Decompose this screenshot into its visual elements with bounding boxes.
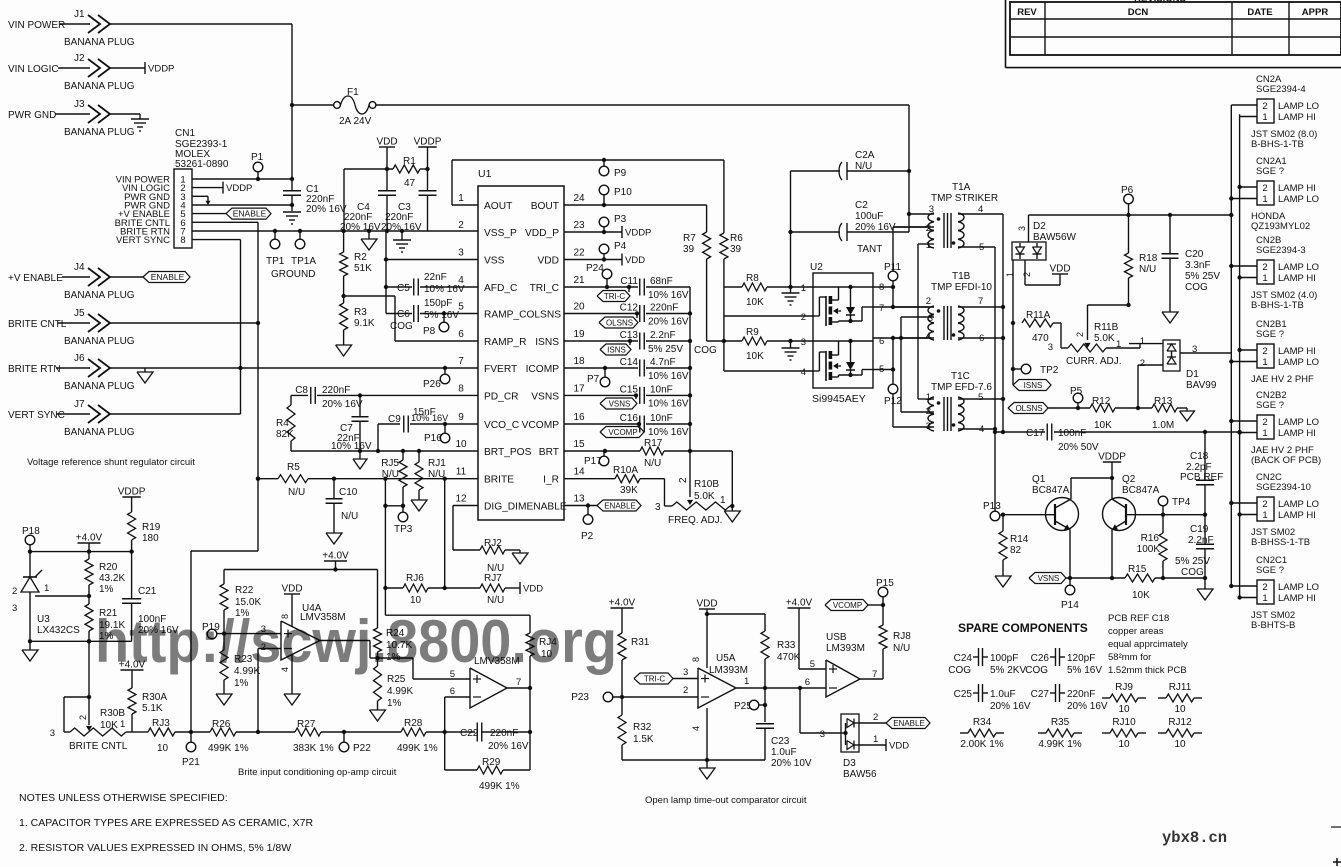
svg-text:VCO_C: VCO_C	[484, 420, 519, 431]
ground below C10	[326, 533, 342, 544]
svg-text:7: 7	[879, 303, 884, 314]
svg-text:R30A: R30A	[142, 692, 167, 703]
svg-text:R20: R20	[99, 562, 118, 573]
svg-text:T1C: T1C	[951, 371, 970, 382]
svg-text:1: 1	[1262, 273, 1267, 284]
svg-text:COG: COG	[1181, 567, 1204, 578]
svg-text:RJ11: RJ11	[1169, 682, 1192, 693]
svg-text:F1: F1	[347, 87, 359, 98]
svg-text:J7: J7	[74, 399, 85, 410]
capacitor C2A N/U	[791, 170, 841, 172]
ground at J6	[144, 368, 146, 372]
capacitor C2 100uF TANT	[790, 171, 792, 287]
svg-text:BRITE CNTL: BRITE CNTL	[8, 319, 67, 330]
capacitor C20 3.3nF	[1169, 215, 1171, 253]
svg-text:VDDP: VDDP	[148, 64, 174, 75]
svg-text:1: 1	[744, 676, 749, 687]
svg-text:Si9945AEY: Si9945AEY	[812, 393, 866, 405]
svg-text:C27: C27	[1031, 689, 1050, 700]
svg-text:VIN POWER: VIN POWER	[8, 20, 65, 31]
svg-text:13: 13	[573, 494, 585, 505]
svg-text:LAMP HI: LAMP HI	[1278, 112, 1316, 123]
svg-text:R25: R25	[387, 674, 406, 685]
svg-text:VDD: VDD	[537, 256, 559, 267]
svg-text:RJ10: RJ10	[1112, 717, 1136, 728]
power flag +4.0V at op-amp	[324, 560, 347, 562]
svg-text:SGE2394-10: SGE2394-10	[1256, 482, 1311, 493]
wire U4B pin6 to feedback	[445, 696, 470, 698]
net flag ENABLE at D3 pin2	[859, 722, 886, 724]
wire comparator ground rail	[622, 759, 765, 761]
svg-text:LAMP HI: LAMP HI	[1278, 183, 1316, 194]
resistor R3 9.1K	[343, 276, 345, 296]
svg-text:10: 10	[1118, 704, 1130, 715]
svg-text:2: 2	[1022, 272, 1032, 277]
svg-text:VDD: VDD	[1049, 264, 1070, 275]
svg-text:TMP STRIKER: TMP STRIKER	[931, 193, 998, 204]
wire pin11 node down to RJ6	[384, 479, 386, 616]
svg-text:BC847A: BC847A	[1122, 485, 1160, 496]
svg-text:PCB REF C18: PCB REF C18	[1108, 613, 1169, 624]
svg-text:VDD: VDD	[889, 741, 909, 752]
resistor R25 4.99K	[377, 658, 379, 666]
svg-text:43.2K: 43.2K	[99, 573, 125, 584]
net flag TRI-C on pin 21	[627, 285, 631, 289]
svg-text:FVERT: FVERT	[484, 364, 517, 375]
svg-text:18: 18	[573, 356, 585, 367]
svg-text:R10A: R10A	[613, 465, 638, 476]
svg-text:R16: R16	[1141, 533, 1160, 544]
net flag ISNS on pin 19	[628, 339, 632, 343]
svg-text:Open lamp time-out comparator: Open lamp time-out comparator circuit	[645, 795, 807, 806]
net flag VCOMP at P15	[825, 600, 868, 611]
svg-text:15.0K: 15.0K	[235, 597, 261, 608]
svg-text:equal apprcimately: equal apprcimately	[1108, 639, 1188, 650]
svg-text:220nF: 220nF	[322, 385, 350, 396]
svg-text:R14: R14	[1010, 534, 1029, 545]
svg-text:C24: C24	[954, 653, 973, 664]
svg-text:RAMP_COLSNS: RAMP_COLSNS	[484, 310, 561, 321]
resistors RJ5 RJ1 N/U	[402, 451, 404, 460]
test point TP1	[274, 231, 276, 239]
svg-text:R29: R29	[482, 757, 501, 768]
svg-text:499K 1%: 499K 1%	[397, 743, 438, 754]
wire R24 node to U4B pin5	[378, 657, 414, 659]
svg-text:VDDP: VDDP	[118, 487, 146, 498]
svg-text:D1: D1	[1186, 369, 1199, 380]
svg-text:RJ9: RJ9	[1115, 682, 1133, 693]
svg-text:P15: P15	[876, 578, 894, 589]
svg-text:LAMP LO: LAMP LO	[1278, 499, 1319, 510]
svg-text:20% 16V: 20% 16V	[306, 204, 347, 215]
svg-text:R3: R3	[354, 307, 367, 318]
svg-text:VDDP: VDDP	[625, 228, 651, 239]
test point P3 and VDDP flag on pin 23	[564, 231, 622, 233]
svg-text:LAMP HI: LAMP HI	[1278, 273, 1316, 284]
svg-text:+4.0V: +4.0V	[76, 533, 103, 544]
svg-text:VSS: VSS	[484, 256, 505, 267]
svg-text:7: 7	[458, 356, 464, 367]
svg-text:6: 6	[458, 329, 464, 340]
svg-text:U1: U1	[478, 168, 492, 180]
resistor R11A 470	[1022, 319, 1053, 327]
capacitor C13 2.2nF	[564, 340, 638, 342]
test point TP2	[1013, 368, 1021, 370]
svg-text:100K: 100K	[1137, 544, 1161, 555]
resistor RJ2 N/U on pin 12	[453, 505, 478, 507]
svg-text:20% 10V: 20% 10V	[771, 758, 812, 769]
svg-text:C6: C6	[397, 309, 410, 320]
potentiometer R11B 5.0K CURR ADJ	[1061, 347, 1068, 349]
svg-text:B-BHSS-1-TB: B-BHSS-1-TB	[1251, 537, 1310, 548]
resistor R32 1.5K	[618, 715, 626, 745]
svg-text:1: 1	[1116, 339, 1121, 350]
junction dots on ground rail	[341, 229, 345, 233]
svg-text:LAMP LO: LAMP LO	[1278, 194, 1319, 205]
svg-text:Voltage reference shunt regula: Voltage reference shunt regulator circui…	[27, 457, 195, 468]
svg-text:U3: U3	[37, 614, 50, 625]
svg-text:20% 16V: 20% 16V	[322, 399, 363, 410]
svg-text:P16: P16	[424, 433, 442, 444]
flag VDD after RJ7	[519, 582, 521, 594]
svg-text:+4.0V: +4.0V	[786, 598, 813, 609]
svg-text:Q1: Q1	[1032, 474, 1046, 485]
svg-text:1: 1	[720, 495, 726, 506]
wire CN1 pin3 to pin4	[192, 195, 208, 197]
svg-text:470: 470	[1032, 333, 1049, 344]
svg-text:PWR GND: PWR GND	[8, 110, 56, 121]
test point P13	[990, 511, 1000, 521]
svg-text:J2: J2	[74, 53, 85, 64]
svg-text:SGE ?: SGE ?	[1256, 166, 1284, 177]
svg-text:LX432CS: LX432CS	[37, 625, 80, 636]
capacitor C16 10nF	[564, 423, 638, 425]
svg-text:120pF: 120pF	[1067, 653, 1095, 664]
svg-text:LM393M: LM393M	[709, 665, 748, 676]
svg-text:20: 20	[573, 302, 585, 313]
svg-text:C21: C21	[138, 586, 157, 597]
resistor R26 499K	[210, 728, 236, 736]
svg-text:220nF: 220nF	[650, 303, 678, 314]
svg-text:TMP EFDI-10: TMP EFDI-10	[931, 282, 992, 293]
svg-text:SGE ?: SGE ?	[1256, 565, 1284, 576]
svg-text:NOTES UNLESS OTHERWISE SPECIFI: NOTES UNLESS OTHERWISE SPECIFIED:	[19, 792, 228, 804]
svg-text:3: 3	[12, 603, 17, 614]
svg-text:1. CAPACITOR TYPES ARE EXPRESS: 1. CAPACITOR TYPES ARE EXPRESSED AS CERA…	[19, 817, 314, 829]
svg-text:82: 82	[1010, 545, 1022, 556]
svg-text:J4: J4	[74, 262, 85, 273]
svg-text:ENABLE: ENABLE	[233, 209, 267, 219]
net flag ISNS	[1013, 380, 1051, 391]
capacitor C10 N/U	[333, 479, 335, 499]
svg-text:R7: R7	[683, 233, 696, 244]
svg-text:LAMP HI: LAMP HI	[1278, 346, 1316, 357]
svg-text:2: 2	[926, 296, 931, 307]
svg-text:P22: P22	[353, 743, 371, 754]
svg-text:C16: C16	[620, 413, 639, 424]
power flag VDD above U4A	[284, 593, 300, 595]
svg-text:6: 6	[450, 686, 455, 697]
svg-text:AFD_C: AFD_C	[484, 283, 517, 294]
svg-text:10nF: 10nF	[650, 413, 673, 424]
svg-text:BANANA PLUG: BANANA PLUG	[64, 427, 135, 438]
wire P6 rail	[1029, 214, 1232, 216]
resistor R4 82K	[290, 395, 292, 405]
svg-text:C2: C2	[855, 200, 868, 211]
resistor R16 100K	[1161, 513, 1165, 517]
svg-text:20% 16V: 20% 16V	[488, 741, 529, 752]
resistor R15 10K	[1125, 574, 1155, 582]
svg-text:100pF: 100pF	[990, 653, 1018, 664]
svg-text:R11B: R11B	[1094, 322, 1119, 333]
resistor R5 N/U	[256, 477, 260, 481]
svg-text:220nF: 220nF	[1067, 689, 1095, 700]
svg-text:3: 3	[683, 667, 688, 678]
power flag VDDP at Q1 Q2	[1103, 461, 1121, 463]
svg-text:P24: P24	[586, 263, 604, 274]
power flag +4.0V at reference	[78, 542, 101, 544]
svg-text:D3: D3	[843, 758, 856, 769]
svg-text:6: 6	[805, 677, 810, 688]
svg-text:100nF: 100nF	[1058, 428, 1086, 439]
svg-text:VSNS: VSNS	[1038, 574, 1060, 583]
ground after R13	[1186, 408, 1188, 411]
svg-text:JAE HV 2 PHF: JAE HV 2 PHF	[1251, 374, 1314, 385]
wire VSS pin3 row	[386, 259, 478, 261]
capacitor C17 100nF	[995, 431, 1045, 433]
svg-text:VDD: VDD	[281, 584, 302, 595]
test point P8	[442, 311, 446, 315]
svg-text:VDDP: VDDP	[1098, 452, 1126, 463]
test point P21	[189, 730, 193, 734]
net flag VCOMP on pin 16	[637, 422, 641, 426]
svg-text:C17: C17	[1026, 428, 1045, 439]
svg-text:12: 12	[455, 494, 467, 505]
wire U2 pin7 to T1B	[873, 306, 928, 308]
corner mark	[1333, 861, 1341, 863]
net flag VSNS on pin 17	[634, 393, 638, 397]
svg-text:R32: R32	[633, 722, 652, 733]
ground below C1	[283, 211, 301, 213]
wire U2 pin4 from column	[724, 370, 813, 372]
test point P15	[882, 597, 884, 605]
svg-text:VDD: VDD	[696, 599, 717, 610]
svg-text:D2: D2	[1033, 221, 1046, 232]
wire bottom rail pin10	[291, 450, 478, 452]
svg-text:N/U: N/U	[1139, 264, 1156, 275]
svg-text:BRITE RTN: BRITE RTN	[8, 364, 61, 375]
ground below C19	[1197, 589, 1213, 600]
svg-text:5.0K: 5.0K	[694, 491, 715, 502]
test point P5	[1048, 407, 1090, 409]
svg-text:68nF: 68nF	[650, 276, 673, 287]
svg-text:R19: R19	[142, 522, 161, 533]
svg-text:VSNS: VSNS	[609, 400, 631, 409]
svg-text:I_R: I_R	[543, 475, 559, 486]
resistor R8 10K	[724, 286, 742, 288]
svg-text:5: 5	[978, 392, 983, 403]
svg-text:2: 2	[873, 712, 878, 723]
svg-text:VDDP: VDDP	[226, 183, 252, 194]
svg-text:P17: P17	[584, 456, 602, 467]
svg-text:8: 8	[691, 657, 701, 662]
svg-text:20% 16V: 20% 16V	[340, 222, 381, 233]
net flag OLSNS	[1008, 403, 1048, 414]
resistor R28 499K	[401, 728, 426, 736]
lamp bus B	[1239, 114, 1241, 597]
svg-text:R28: R28	[404, 718, 423, 729]
svg-text:82K: 82K	[276, 429, 294, 440]
power flag +4.0V at U5B	[788, 607, 811, 609]
wire CN1 pin1 to VIN POWER	[192, 178, 292, 180]
wire T1C pin3 column	[892, 394, 894, 427]
wire brite row right	[426, 731, 475, 733]
svg-text:LAMP LO: LAMP LO	[1278, 357, 1319, 368]
svg-text:100uF: 100uF	[855, 211, 883, 222]
svg-text:BAW56W: BAW56W	[1033, 232, 1077, 243]
svg-text:22nF: 22nF	[424, 272, 447, 283]
svg-text:P2: P2	[581, 531, 594, 542]
svg-text:470K: 470K	[777, 652, 801, 663]
svg-text:1: 1	[801, 283, 806, 294]
svg-text:R27: R27	[297, 719, 316, 730]
svg-text:VDD: VDD	[523, 584, 543, 595]
svg-text:RJ1: RJ1	[428, 458, 446, 469]
ground below R10B	[731, 506, 733, 511]
capacitor C6 150pF	[386, 313, 412, 315]
capacitor C5 22nF	[386, 286, 412, 288]
svg-text:C19: C19	[1190, 524, 1209, 535]
net flag ENABLE at J4	[143, 272, 190, 283]
wire U5A output row	[736, 687, 826, 689]
svg-text:BAW56: BAW56	[843, 769, 877, 780]
svg-text:P14: P14	[1061, 600, 1079, 611]
resistor R10A 39K on I_R	[564, 478, 615, 480]
svg-text:R10B: R10B	[694, 479, 719, 490]
svg-text:C14: C14	[620, 357, 639, 368]
svg-text:2: 2	[678, 477, 689, 483]
svg-text:P23: P23	[571, 692, 589, 703]
svg-text:11: 11	[456, 467, 467, 478]
resistor R6 39	[720, 233, 728, 259]
svg-text:2: 2	[1262, 582, 1267, 593]
svg-text:USB: USB	[826, 632, 847, 643]
svg-text:2: 2	[801, 312, 806, 323]
svg-text:J6: J6	[74, 353, 85, 364]
svg-text:47: 47	[404, 178, 416, 189]
svg-text:58²mm for: 58²mm for	[1108, 652, 1151, 663]
wire U2 pin6 row	[873, 337, 928, 339]
svg-text:TANT: TANT	[857, 244, 882, 255]
caps common bus to wiper	[689, 287, 691, 451]
svg-text:P8: P8	[423, 326, 436, 337]
svg-text:2: 2	[1075, 332, 1085, 337]
svg-text:1: 1	[1262, 194, 1267, 205]
svg-text:BOUT: BOUT	[531, 201, 559, 212]
svg-text:3: 3	[50, 728, 55, 739]
svg-text:R2: R2	[354, 252, 367, 263]
svg-text:R18: R18	[1139, 253, 1158, 264]
svg-text:1: 1	[1262, 428, 1267, 439]
svg-text:C20: C20	[1185, 249, 1204, 260]
wire VIN POWER to F1 and CN1	[291, 24, 293, 179]
svg-text:BANANA PLUG: BANANA PLUG	[64, 81, 135, 92]
svg-text:2: 2	[458, 220, 464, 231]
svg-text:N/U: N/U	[382, 469, 399, 480]
svg-text:P4: P4	[614, 241, 627, 252]
svg-text:20% 16V: 20% 16V	[1067, 701, 1108, 712]
svg-text:N/U: N/U	[487, 595, 504, 606]
svg-text:1%: 1%	[387, 698, 402, 709]
wire D2 pin1 down	[1012, 260, 1014, 385]
svg-text:RJ3: RJ3	[152, 718, 170, 729]
resistor RJ7 N/U	[445, 587, 480, 589]
svg-text:BRT_POS: BRT_POS	[484, 447, 532, 458]
svg-text:RJ7: RJ7	[484, 573, 502, 584]
capacitor C12 220nF	[564, 313, 638, 315]
ground after RJ2	[519, 550, 521, 553]
svg-text:T1A: T1A	[952, 182, 971, 193]
svg-text:3: 3	[1192, 344, 1197, 355]
svg-text:20% 16V: 20% 16V	[648, 317, 689, 328]
test point P9	[602, 158, 606, 162]
potentiometer R30B BRITE CNTL	[64, 696, 89, 698]
svg-text:DATE: DATE	[1247, 7, 1272, 18]
capacitor C21 100nF	[131, 552, 133, 598]
IC U1 box	[478, 186, 564, 520]
test point TP1A	[299, 231, 301, 239]
svg-text:VDD: VDD	[625, 255, 645, 266]
svg-text:10% 16V: 10% 16V	[648, 371, 689, 382]
svg-text:2: 2	[1262, 262, 1267, 273]
resistor R24 10.7K	[377, 570, 379, 629]
flag VDD at D3 pin1	[859, 744, 886, 746]
svg-text:R5: R5	[287, 462, 300, 473]
lamp bus A	[1230, 105, 1232, 586]
svg-text:Q2: Q2	[1122, 474, 1136, 485]
svg-text:P21: P21	[182, 757, 200, 768]
power flag +4.0V above R30A	[121, 669, 144, 671]
ground below C20	[1162, 312, 1178, 323]
svg-text:P9: P9	[614, 168, 627, 179]
svg-text:C8: C8	[295, 385, 308, 396]
svg-text:RJ8: RJ8	[893, 631, 911, 642]
svg-text:BRITE: BRITE	[484, 475, 514, 486]
svg-text:FREQ. ADJ.: FREQ. ADJ.	[668, 515, 722, 526]
diode D3 BAW56	[841, 714, 859, 752]
svg-text:3: 3	[1017, 226, 1027, 231]
svg-text:ENABLE: ENABLE	[604, 502, 636, 511]
svg-text:5% 2KV: 5% 2KV	[990, 665, 1026, 676]
svg-text:SGE2394-4: SGE2394-4	[1256, 84, 1306, 95]
svg-text:20% 16V: 20% 16V	[855, 222, 896, 233]
resistor R19 180	[128, 512, 136, 540]
svg-text:R4: R4	[276, 418, 289, 429]
svg-text:1.0uF: 1.0uF	[990, 689, 1016, 700]
svg-text:U5A: U5A	[716, 653, 736, 664]
wire +4.0V rail	[30, 551, 132, 553]
svg-text:GROUND: GROUND	[271, 269, 315, 280]
U2 pin5 exit	[858, 374, 862, 376]
svg-text:R35: R35	[1051, 717, 1070, 728]
resistor RJ8 N/U	[879, 625, 887, 649]
svg-text:R26: R26	[212, 719, 231, 730]
svg-text:N/U: N/U	[288, 487, 305, 498]
resistor R23 4.99K	[220, 650, 228, 680]
test point TP3	[402, 487, 404, 512]
svg-text:LAMP HI: LAMP HI	[1278, 510, 1316, 521]
svg-text:R31: R31	[631, 637, 650, 648]
